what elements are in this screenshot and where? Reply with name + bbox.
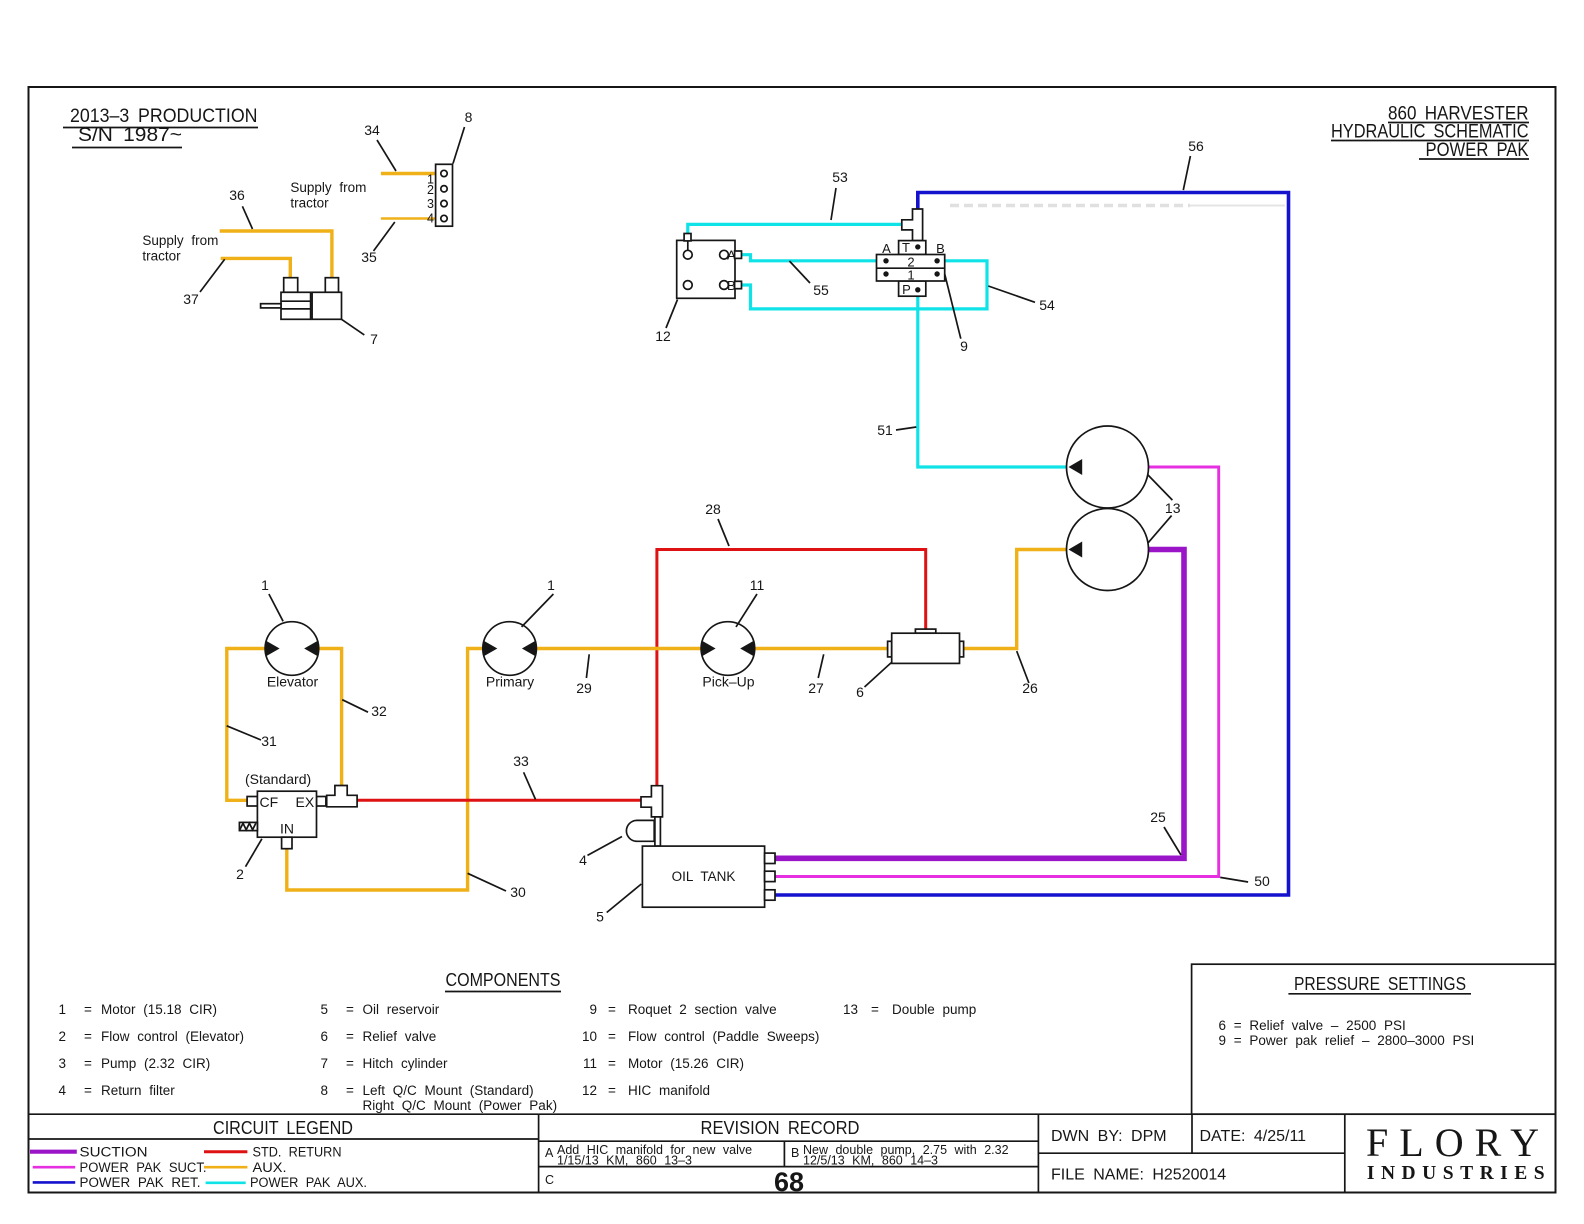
svg-text:Relief valve: Relief valve <box>363 1029 437 1044</box>
svg-text:A: A <box>882 241 891 256</box>
svg-text:=: = <box>346 1056 354 1071</box>
components column 4 <box>843 1002 976 1017</box>
pickup motor 11 <box>701 622 755 690</box>
svg-text:36: 36 <box>229 187 245 203</box>
wire 51 power pak aux valve P to upper pump <box>918 295 1067 467</box>
callout 31 <box>227 726 277 749</box>
svg-text:FLORY: FLORY <box>1366 1120 1550 1165</box>
svg-text:11: 11 <box>583 1056 597 1071</box>
svg-text:=: = <box>608 1029 616 1044</box>
title block <box>1038 1114 1555 1192</box>
manifold port B circle <box>720 281 729 290</box>
callout 1 primary <box>522 577 556 627</box>
svg-text:11: 11 <box>750 577 765 593</box>
callout 35 <box>361 222 395 265</box>
wire 31 aux elevator left loop to CF <box>227 649 265 801</box>
svg-text:B: B <box>727 278 736 293</box>
svg-text:SUCTION: SUCTION <box>80 1145 148 1160</box>
svg-text:=: = <box>84 1056 92 1071</box>
svg-text:POWER PAK SUCT.: POWER PAK SUCT. <box>80 1160 207 1175</box>
flow control (elevator) 2 <box>239 771 326 849</box>
svg-text:1: 1 <box>58 1002 66 1017</box>
hitch cylinder 7 <box>261 278 342 320</box>
callout 12 <box>655 300 677 345</box>
callout 51 <box>877 422 916 438</box>
svg-text:1: 1 <box>907 268 914 283</box>
svg-text:HIC manifold: HIC manifold <box>628 1083 710 1098</box>
svg-text:5: 5 <box>596 909 604 925</box>
callout 33 <box>513 753 535 799</box>
svg-text:Double pump: Double pump <box>892 1002 976 1017</box>
svg-text:FILE NAME: H2520014: FILE NAME: H2520014 <box>1051 1167 1226 1184</box>
callout 54 <box>988 286 1055 313</box>
svg-text:Return filter: Return filter <box>101 1083 175 1098</box>
svg-text:PRESSURE SETTINGS: PRESSURE SETTINGS <box>1294 974 1466 994</box>
roquet 2 section valve 9 <box>877 240 945 297</box>
valve section 2 port B dot <box>934 258 939 263</box>
svg-text:DATE: 4/25/11: DATE: 4/25/11 <box>1200 1128 1307 1145</box>
legend row: power pak suct <box>33 1160 207 1175</box>
callout 32 <box>342 700 387 719</box>
svg-text:INDUSTRIES: INDUSTRIES <box>1367 1163 1551 1184</box>
svg-text:2: 2 <box>236 866 244 882</box>
svg-text:IN: IN <box>280 821 294 837</box>
svg-text:6: 6 <box>856 684 864 700</box>
wire 32 aux elevator right to tee <box>319 649 342 787</box>
callout 2 <box>236 839 262 882</box>
callout 28 <box>705 501 729 546</box>
svg-text:P: P <box>902 282 911 297</box>
wire 56 power pak return tee to tank <box>775 193 1289 896</box>
svg-text:3: 3 <box>58 1056 66 1071</box>
supply from tractor label top <box>290 180 366 211</box>
circuit legend box <box>29 1114 539 1192</box>
svg-text:33: 33 <box>513 753 529 769</box>
svg-text:9: 9 <box>960 338 968 354</box>
wire 33 std return tee to tank tee <box>357 799 642 802</box>
svg-text:8: 8 <box>320 1083 328 1098</box>
svg-text:tractor: tractor <box>290 196 329 211</box>
svg-text:Pump (2.32 CIR): Pump (2.32 CIR) <box>101 1056 210 1071</box>
valve port T dot <box>915 244 920 249</box>
wire 27 aux pickup to relief valve <box>755 647 888 650</box>
svg-text:1: 1 <box>261 577 269 593</box>
relief valve 6 <box>888 629 964 663</box>
svg-text:9 = Power pak relief – 2: 9 = Power pak relief – 2800–3000 PSI <box>1219 1033 1475 1048</box>
wire 35 aux supply to QC pin4 <box>381 217 441 220</box>
callout 34 <box>364 122 396 171</box>
wire 29 aux primary to pickup <box>536 647 701 650</box>
svg-text:4: 4 <box>579 852 587 868</box>
wire 54 power pak aux manifold B to valve <box>742 261 988 309</box>
wire 50 power pak suction upper pump to tank <box>775 467 1219 877</box>
svg-text:Roquet 2 section valve: Roquet 2 section valve <box>628 1002 777 1017</box>
svg-text:=: = <box>346 1002 354 1017</box>
tank inlet tube <box>655 817 661 846</box>
supply from tractor label left <box>142 233 218 264</box>
svg-text:Motor (15.26 CIR): Motor (15.26 CIR) <box>628 1056 744 1071</box>
callout 56 <box>1183 138 1204 190</box>
callout 26 <box>1017 651 1038 696</box>
svg-text:34: 34 <box>364 122 380 138</box>
wire 26 aux relief valve to lower pump <box>963 550 1067 649</box>
tee fitting 53 above valve <box>902 209 923 241</box>
callout 1 elevator <box>261 577 283 621</box>
svg-text:=: = <box>608 1083 616 1098</box>
valve section 2 port A dot <box>883 258 888 263</box>
svg-text:POWER PAK RET.: POWER PAK RET. <box>80 1175 201 1190</box>
callout 9 <box>945 274 968 354</box>
callout 11 pickup <box>736 577 764 627</box>
svg-text:29: 29 <box>576 680 592 696</box>
svg-text:Supply from: Supply from <box>142 233 218 248</box>
revision record box <box>539 1114 1039 1197</box>
wire 36 aux supply to cylinder right port <box>220 231 332 278</box>
svg-text:(Standard): (Standard) <box>245 771 311 787</box>
double pump 13 <box>1067 426 1149 591</box>
tank suction port <box>765 853 775 863</box>
svg-text:Elevator: Elevator <box>267 674 319 690</box>
callout 37 <box>183 259 224 307</box>
svg-text:=: = <box>346 1083 354 1098</box>
legend row: std return <box>204 1145 342 1160</box>
svg-text:Flow control (Paddle Sweeps: Flow control (Paddle Sweeps) <box>628 1029 819 1044</box>
svg-text:=: = <box>608 1002 616 1017</box>
svg-text:9: 9 <box>589 1002 597 1017</box>
svg-text:7: 7 <box>320 1056 328 1071</box>
svg-text:31: 31 <box>261 733 277 749</box>
svg-text:12: 12 <box>655 328 671 344</box>
components column 3 <box>582 1002 819 1098</box>
tank return port <box>765 890 775 900</box>
svg-text:35: 35 <box>361 249 377 265</box>
svg-text:Supply from: Supply from <box>290 180 366 195</box>
svg-text:1/15/13 KM, 860 13–3: 1/15/13 KM, 860 13–3 <box>557 1154 692 1168</box>
wire 53 power pak aux manifold to tee <box>688 224 903 236</box>
wire 37 aux supply to cylinder left port <box>221 258 291 277</box>
svg-text:=: = <box>871 1002 879 1017</box>
wire 34 aux supply to QC pin1 <box>381 172 441 176</box>
svg-text:7: 7 <box>370 331 378 347</box>
svg-text:=: = <box>346 1029 354 1044</box>
svg-text:13: 13 <box>1165 500 1181 516</box>
tee fitting at flow control EX <box>327 786 357 807</box>
svg-text:68: 68 <box>774 1167 804 1197</box>
svg-text:POWER PAK AUX.: POWER PAK AUX. <box>250 1175 367 1190</box>
svg-text:13: 13 <box>843 1002 858 1017</box>
svg-text:37: 37 <box>183 291 199 307</box>
callout 25 <box>1150 809 1181 855</box>
wire 55 power pak aux manifold A to valve <box>742 255 885 261</box>
svg-text:=: = <box>84 1083 92 1098</box>
svg-text:=: = <box>608 1056 616 1071</box>
callout 27 <box>808 654 824 696</box>
QC pin 2 circle <box>441 186 447 192</box>
svg-text:4: 4 <box>427 212 434 226</box>
title top-left <box>63 106 258 148</box>
svg-text:3: 3 <box>427 197 434 211</box>
callout 8 <box>453 109 473 164</box>
HIC manifold 12 <box>677 234 742 299</box>
pressure settings box <box>1192 964 1556 1114</box>
callout 53 <box>831 169 848 220</box>
svg-text:CIRCUIT LEGEND: CIRCUIT LEGEND <box>213 1118 353 1138</box>
svg-text:8: 8 <box>465 109 473 125</box>
svg-text:6: 6 <box>320 1029 328 1044</box>
QC pin 4 circle <box>441 215 447 221</box>
svg-text:S/N 1987~: S/N 1987~ <box>78 125 182 146</box>
svg-text:26: 26 <box>1022 680 1038 696</box>
title top-right <box>1331 104 1529 162</box>
tee fitting at tank inlet <box>641 786 663 817</box>
svg-text:Left Q/C Mount (Standard): Left Q/C Mount (Standard) <box>363 1083 534 1098</box>
callout 29 <box>576 654 592 696</box>
svg-text:Oil reservoir: Oil reservoir <box>363 1002 440 1017</box>
legend row: aux <box>204 1160 287 1175</box>
oil tank 5 <box>642 846 775 907</box>
svg-text:32: 32 <box>371 703 387 719</box>
svg-text:=: = <box>84 1029 92 1044</box>
svg-text:53: 53 <box>832 169 848 185</box>
svg-text:COMPONENTS: COMPONENTS <box>446 970 561 990</box>
svg-text:2: 2 <box>427 183 434 197</box>
svg-text:AUX.: AUX. <box>253 1160 287 1175</box>
svg-text:5: 5 <box>320 1002 328 1017</box>
legend row: power pak aux <box>206 1175 367 1190</box>
manifold bottom-left port <box>683 281 692 290</box>
svg-text:25: 25 <box>1150 809 1166 825</box>
svg-text:28: 28 <box>705 501 721 517</box>
callout 36 <box>229 187 252 229</box>
svg-text:10: 10 <box>582 1029 597 1044</box>
svg-text:1: 1 <box>547 577 555 593</box>
svg-text:T: T <box>902 240 910 255</box>
svg-text:54: 54 <box>1039 297 1055 313</box>
svg-text:Flow control (Elevator): Flow control (Elevator) <box>101 1029 244 1044</box>
svg-text:EX: EX <box>296 794 315 810</box>
svg-text:4: 4 <box>58 1083 66 1098</box>
manifold top-left port <box>683 250 692 259</box>
QC mount connector 8 <box>427 164 452 226</box>
QC pin 3 circle <box>441 200 447 206</box>
svg-text:C: C <box>545 1173 554 1187</box>
svg-text:30: 30 <box>510 884 526 900</box>
components heading <box>445 970 561 992</box>
svg-text:A: A <box>727 248 736 263</box>
svg-text:12: 12 <box>582 1083 597 1098</box>
svg-text:B: B <box>936 241 945 256</box>
svg-text:=: = <box>84 1002 92 1017</box>
svg-text:A: A <box>545 1146 554 1160</box>
components column 2 <box>320 1002 557 1113</box>
valve section 1 right dot <box>934 271 939 276</box>
svg-text:tractor: tractor <box>142 249 181 264</box>
svg-text:2013–3 PRODUCTION: 2013–3 PRODUCTION <box>70 106 258 127</box>
callout 6 <box>856 663 891 700</box>
callout 13 <box>1147 474 1180 542</box>
elevator motor 1 <box>265 622 319 690</box>
manifold B outlet <box>735 281 742 288</box>
svg-text:Motor (15.18 CIR): Motor (15.18 CIR) <box>101 1002 217 1017</box>
svg-text:Primary: Primary <box>486 674 534 690</box>
svg-text:27: 27 <box>808 680 824 696</box>
components column 1 <box>58 1002 244 1098</box>
wire 25 suction lower pump to tank <box>775 550 1184 859</box>
callout 55 <box>789 261 829 298</box>
tank power pak suction port <box>765 871 775 881</box>
valve section 1 left dot <box>883 271 888 276</box>
callout 7 <box>342 319 379 347</box>
svg-text:STD. RETURN: STD. RETURN <box>253 1145 342 1160</box>
svg-text:POWER PAK: POWER PAK <box>1426 140 1529 161</box>
valve port P dot <box>915 287 920 292</box>
gray artifact dashes along blue line <box>950 204 1285 207</box>
callout 50 <box>1220 873 1270 889</box>
svg-text:56: 56 <box>1188 138 1204 154</box>
svg-text:REVISION RECORD: REVISION RECORD <box>701 1118 860 1138</box>
svg-text:Pick–Up: Pick–Up <box>702 674 754 690</box>
callout 5 <box>596 884 641 925</box>
svg-text:51: 51 <box>877 422 893 438</box>
legend row: suction <box>30 1145 148 1160</box>
svg-text:12/5/13 KM, 860 14–3: 12/5/13 KM, 860 14–3 <box>803 1154 938 1168</box>
svg-text:2: 2 <box>58 1029 66 1044</box>
svg-text:6 = Relief valve – 2500: 6 = Relief valve – 2500 PSI <box>1219 1018 1406 1033</box>
return filter 4 <box>626 820 654 841</box>
svg-text:B: B <box>791 1146 799 1160</box>
manifold port A circle <box>720 250 729 259</box>
primary motor 1 <box>483 622 537 690</box>
callout 30 <box>468 873 526 900</box>
svg-text:55: 55 <box>813 282 829 298</box>
manifold A outlet <box>735 251 742 258</box>
svg-text:OIL TANK: OIL TANK <box>672 869 736 884</box>
QC pin 1 circle <box>441 170 447 176</box>
svg-text:DWN BY: DPM: DWN BY: DPM <box>1051 1128 1167 1145</box>
wire 30 aux IN port loop to primary <box>287 649 483 891</box>
svg-text:50: 50 <box>1254 873 1270 889</box>
svg-text:CF: CF <box>260 794 279 810</box>
svg-text:Hitch cylinder: Hitch cylinder <box>363 1056 449 1071</box>
wire 28 std return tank tee up and to relief valve <box>657 550 926 787</box>
svg-text:Right Q/C Mount (Power Pak: Right Q/C Mount (Power Pak) <box>363 1098 558 1113</box>
callout 4 <box>579 837 622 869</box>
legend row: power pak ret <box>33 1175 201 1190</box>
